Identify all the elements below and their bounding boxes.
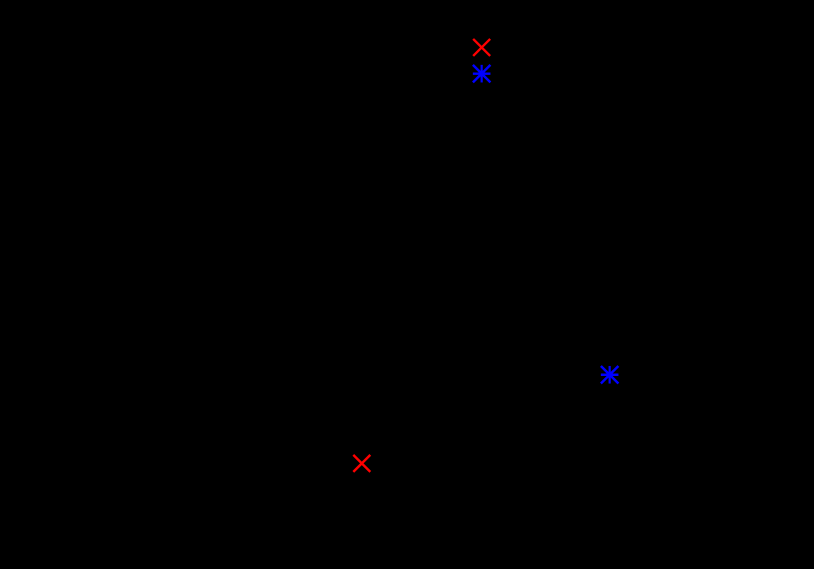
marker: blue asterisk data point 1 (top) [473,65,491,83]
marker: red X data point 1 (top) [473,39,490,56]
marker: red X data point 2 (bottom left) [353,455,370,472]
marker: blue asterisk data point 2 (middle right) [601,366,619,384]
